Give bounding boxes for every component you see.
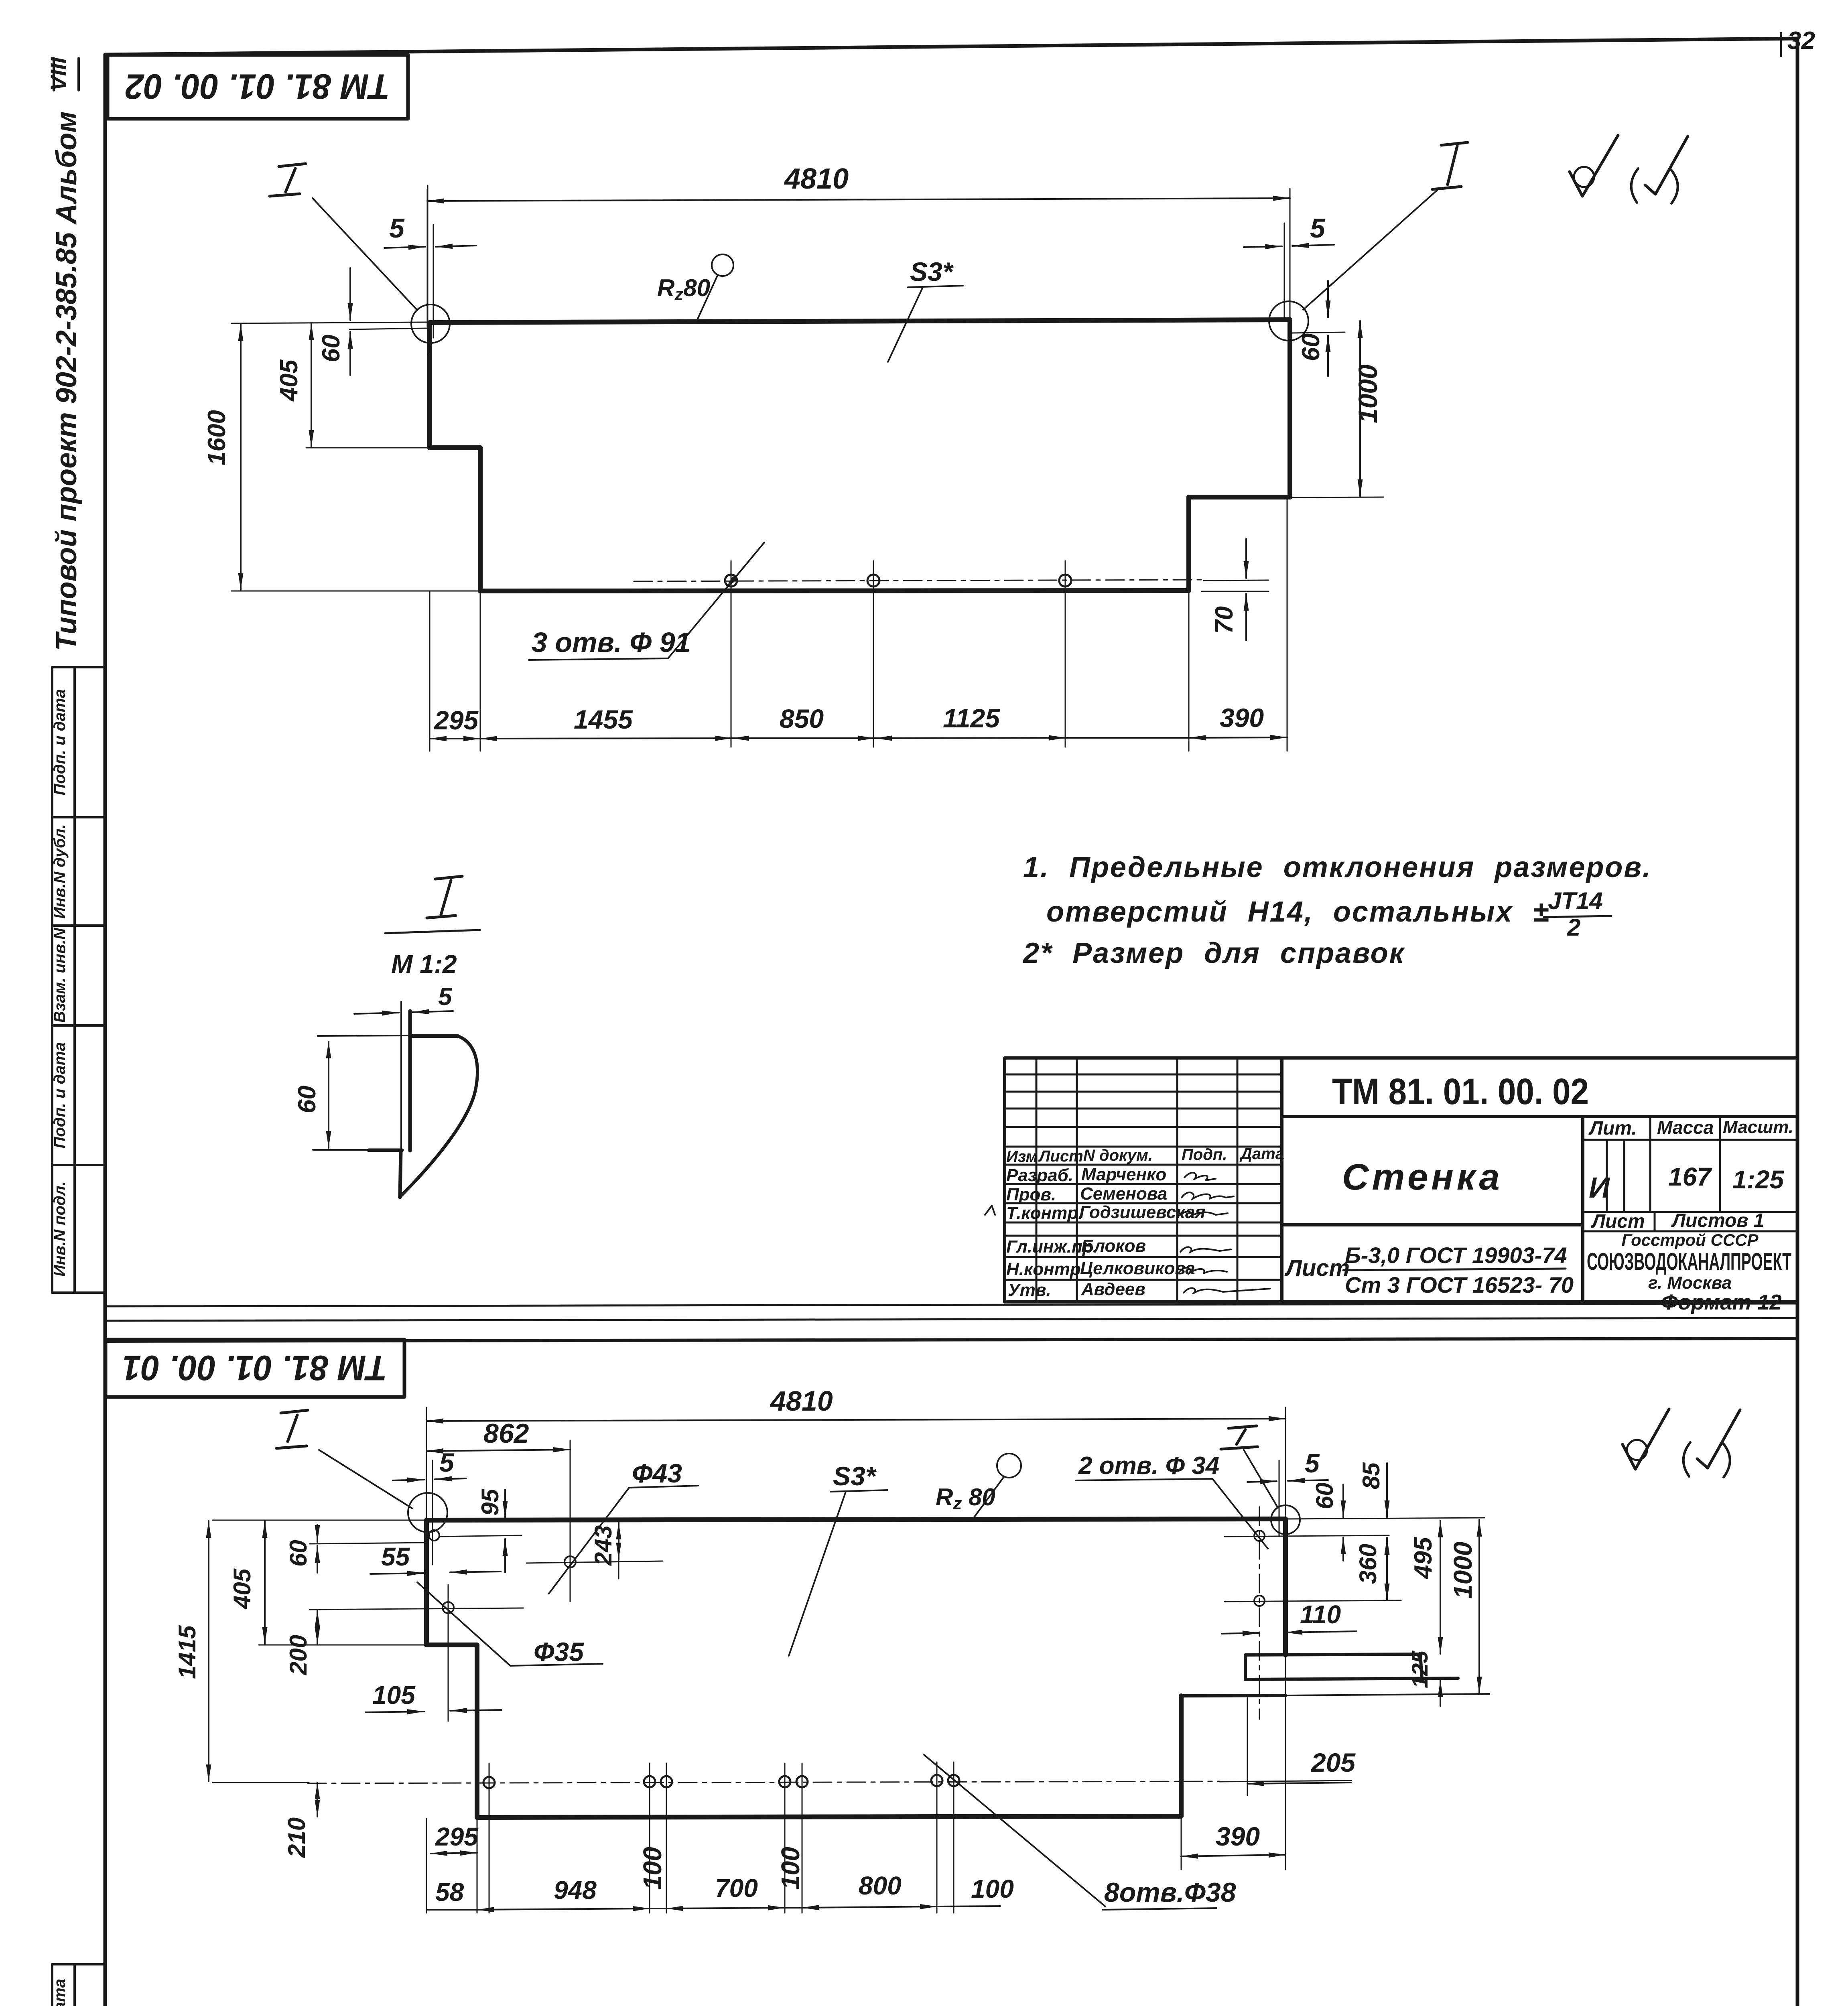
svg-text:167: 167 (1668, 1162, 1712, 1191)
svg-text:Т.контр.: Т.контр. (1006, 1203, 1083, 1223)
svg-text:Лист: Лист (1591, 1211, 1645, 1232)
svg-text:60: 60 (293, 1086, 321, 1113)
svg-text:205: 205 (1310, 1748, 1356, 1777)
svg-text:Утв.: Утв. (1008, 1280, 1051, 1300)
svg-text:Rz80: Rz80 (657, 274, 710, 304)
svg-text:S3*: S3* (833, 1461, 877, 1491)
svg-text:Масса: Масса (1657, 1117, 1714, 1138)
svg-text:Инв.N дубл.: Инв.N дубл. (51, 824, 69, 919)
svg-text:390: 390 (1220, 703, 1264, 733)
svg-text:ТМ 81. 01. 00. 02: ТМ 81. 01. 00. 02 (1332, 1071, 1589, 1112)
svg-text:210: 210 (283, 1817, 310, 1858)
svg-text:Листов 1: Листов 1 (1671, 1210, 1764, 1231)
svg-text:1. Предельные отклонения р: 1. Предельные отклонения размеров. (1023, 851, 1652, 883)
svg-text:М 1:2: М 1:2 (391, 950, 457, 979)
svg-text:850: 850 (780, 704, 824, 733)
svg-text:ТМ 81. 01. 00. 02: ТМ 81. 01. 00. 02 (125, 67, 390, 107)
svg-text:Дата: Дата (1239, 1145, 1284, 1163)
svg-text:Марченко: Марченко (1081, 1165, 1166, 1184)
svg-text:32: 32 (1787, 27, 1815, 55)
svg-text:СОЮЗВОДОКАНАЛПРОЕКТ: СОЮЗВОДОКАНАЛПРОЕКТ (1587, 1248, 1791, 1275)
svg-text:VIII: VIII (46, 57, 71, 91)
svg-text:Ст 3 ГОСТ 16523- 70: Ст 3 ГОСТ 16523- 70 (1345, 1272, 1574, 1297)
svg-text:5: 5 (389, 213, 405, 244)
svg-text:Ф35: Ф35 (534, 1637, 584, 1667)
svg-text:Лист: Лист (1038, 1147, 1083, 1165)
svg-text:1600: 1600 (203, 410, 231, 465)
svg-text:405: 405 (275, 359, 303, 402)
svg-text:2* Размер для справок: 2* Размер для справок (1022, 937, 1405, 969)
svg-text:Ф43: Ф43 (632, 1458, 682, 1488)
svg-text:Изм: Изм (1006, 1148, 1038, 1165)
svg-text:Формат 12: Формат 12 (1661, 1290, 1781, 1314)
svg-text:Госстрой СССР: Госстрой СССР (1621, 1230, 1759, 1249)
svg-text:948: 948 (554, 1876, 597, 1904)
svg-text:55: 55 (381, 1542, 410, 1571)
svg-text:Rz 80: Rz 80 (936, 1484, 995, 1513)
svg-text:Подп.: Подп. (1182, 1146, 1227, 1163)
svg-text:1000: 1000 (1448, 1542, 1477, 1599)
svg-text:3 отв. Ф 91: 3 отв. Ф 91 (532, 627, 691, 658)
svg-text:Подпись, дата: Подпись, дата (51, 1979, 69, 2006)
svg-text:Подп. и дата: Подп. и дата (51, 1042, 69, 1149)
svg-text:360: 360 (1355, 1544, 1381, 1584)
svg-text:85: 85 (1358, 1462, 1385, 1489)
svg-text:110: 110 (1300, 1600, 1341, 1629)
svg-text:100: 100 (971, 1874, 1014, 1903)
svg-text:И: И (1589, 1172, 1610, 1204)
svg-text:1000: 1000 (1353, 364, 1383, 423)
svg-text:Авдеев: Авдеев (1081, 1279, 1145, 1299)
svg-text:Пров.: Пров. (1006, 1185, 1056, 1204)
svg-text:Инв.N подл.: Инв.N подл. (51, 1181, 69, 1277)
svg-text:105: 105 (372, 1681, 416, 1710)
svg-text:1:25: 1:25 (1732, 1165, 1785, 1194)
svg-text:4810: 4810 (784, 163, 849, 195)
svg-text:295: 295 (433, 705, 479, 735)
svg-text:Блоков: Блоков (1081, 1236, 1146, 1256)
svg-text:58: 58 (435, 1878, 464, 1907)
svg-text:1455: 1455 (574, 705, 633, 734)
svg-text:Семенова: Семенова (1080, 1184, 1167, 1204)
svg-text:Целковикова: Целковикова (1080, 1259, 1195, 1278)
svg-text:Н.контр: Н.контр (1006, 1259, 1081, 1279)
svg-text:390: 390 (1216, 1821, 1260, 1851)
svg-text:Масшт.: Масшт. (1723, 1117, 1793, 1137)
svg-text:5: 5 (438, 983, 453, 1011)
svg-text:100: 100 (638, 1847, 667, 1890)
svg-text:Типовой проект 902-2-385.85 Ал: Типовой проект 902-2-385.85 Альбом (51, 111, 83, 651)
svg-text:4810: 4810 (770, 1385, 833, 1417)
svg-text:200: 200 (285, 1635, 312, 1675)
svg-text:60: 60 (1297, 333, 1325, 361)
svg-text:Лист: Лист (1284, 1255, 1350, 1281)
svg-text:Подп. и дата: Подп. и дата (51, 689, 69, 796)
svg-text:95: 95 (477, 1488, 504, 1516)
svg-text:5: 5 (1305, 1448, 1320, 1478)
svg-text:5: 5 (439, 1448, 455, 1477)
svg-text:ТМ 81. 01. 00. 01: ТМ 81. 01. 00. 01 (122, 1348, 387, 1388)
svg-text:S3*: S3* (910, 257, 954, 286)
svg-text:Взам. инв.N: Взам. инв.N (51, 928, 69, 1023)
svg-text:125: 125 (1407, 1651, 1432, 1688)
svg-text:1415: 1415 (174, 1625, 201, 1679)
svg-text:1125: 1125 (943, 703, 1000, 733)
svg-text:100: 100 (776, 1847, 805, 1890)
svg-text:862: 862 (483, 1418, 529, 1449)
svg-text:Стенка: Стенка (1342, 1157, 1503, 1198)
svg-text:800: 800 (859, 1871, 902, 1900)
svg-text:295: 295 (435, 1822, 479, 1851)
svg-text:2 отв. Ф 34: 2 отв. Ф 34 (1078, 1452, 1219, 1480)
svg-text:Б-3,0 ГОСТ 19903-74: Б-3,0 ГОСТ 19903-74 (1345, 1243, 1567, 1268)
svg-text:70: 70 (1210, 606, 1238, 634)
svg-text:JT14: JT14 (1548, 887, 1603, 914)
svg-text:2: 2 (1567, 914, 1580, 941)
svg-text:405: 405 (229, 1568, 256, 1609)
svg-text:N докум.: N докум. (1083, 1147, 1153, 1164)
svg-text:Лит.: Лит. (1588, 1118, 1637, 1139)
svg-text:495: 495 (1409, 1537, 1437, 1580)
svg-text:700: 700 (715, 1874, 758, 1902)
svg-text:243: 243 (590, 1525, 617, 1566)
svg-text:г. Москва: г. Москва (1648, 1273, 1732, 1293)
svg-text:отверстий Н14, остальных ±: отверстий Н14, остальных ± (1046, 896, 1550, 928)
svg-text:60: 60 (317, 335, 345, 362)
svg-text:5: 5 (1310, 213, 1326, 244)
svg-text:60: 60 (285, 1540, 312, 1567)
svg-text:8отв.Ф38: 8отв.Ф38 (1104, 1877, 1236, 1908)
svg-text:60: 60 (1311, 1482, 1338, 1509)
svg-text:Разраб.: Разраб. (1006, 1165, 1073, 1185)
